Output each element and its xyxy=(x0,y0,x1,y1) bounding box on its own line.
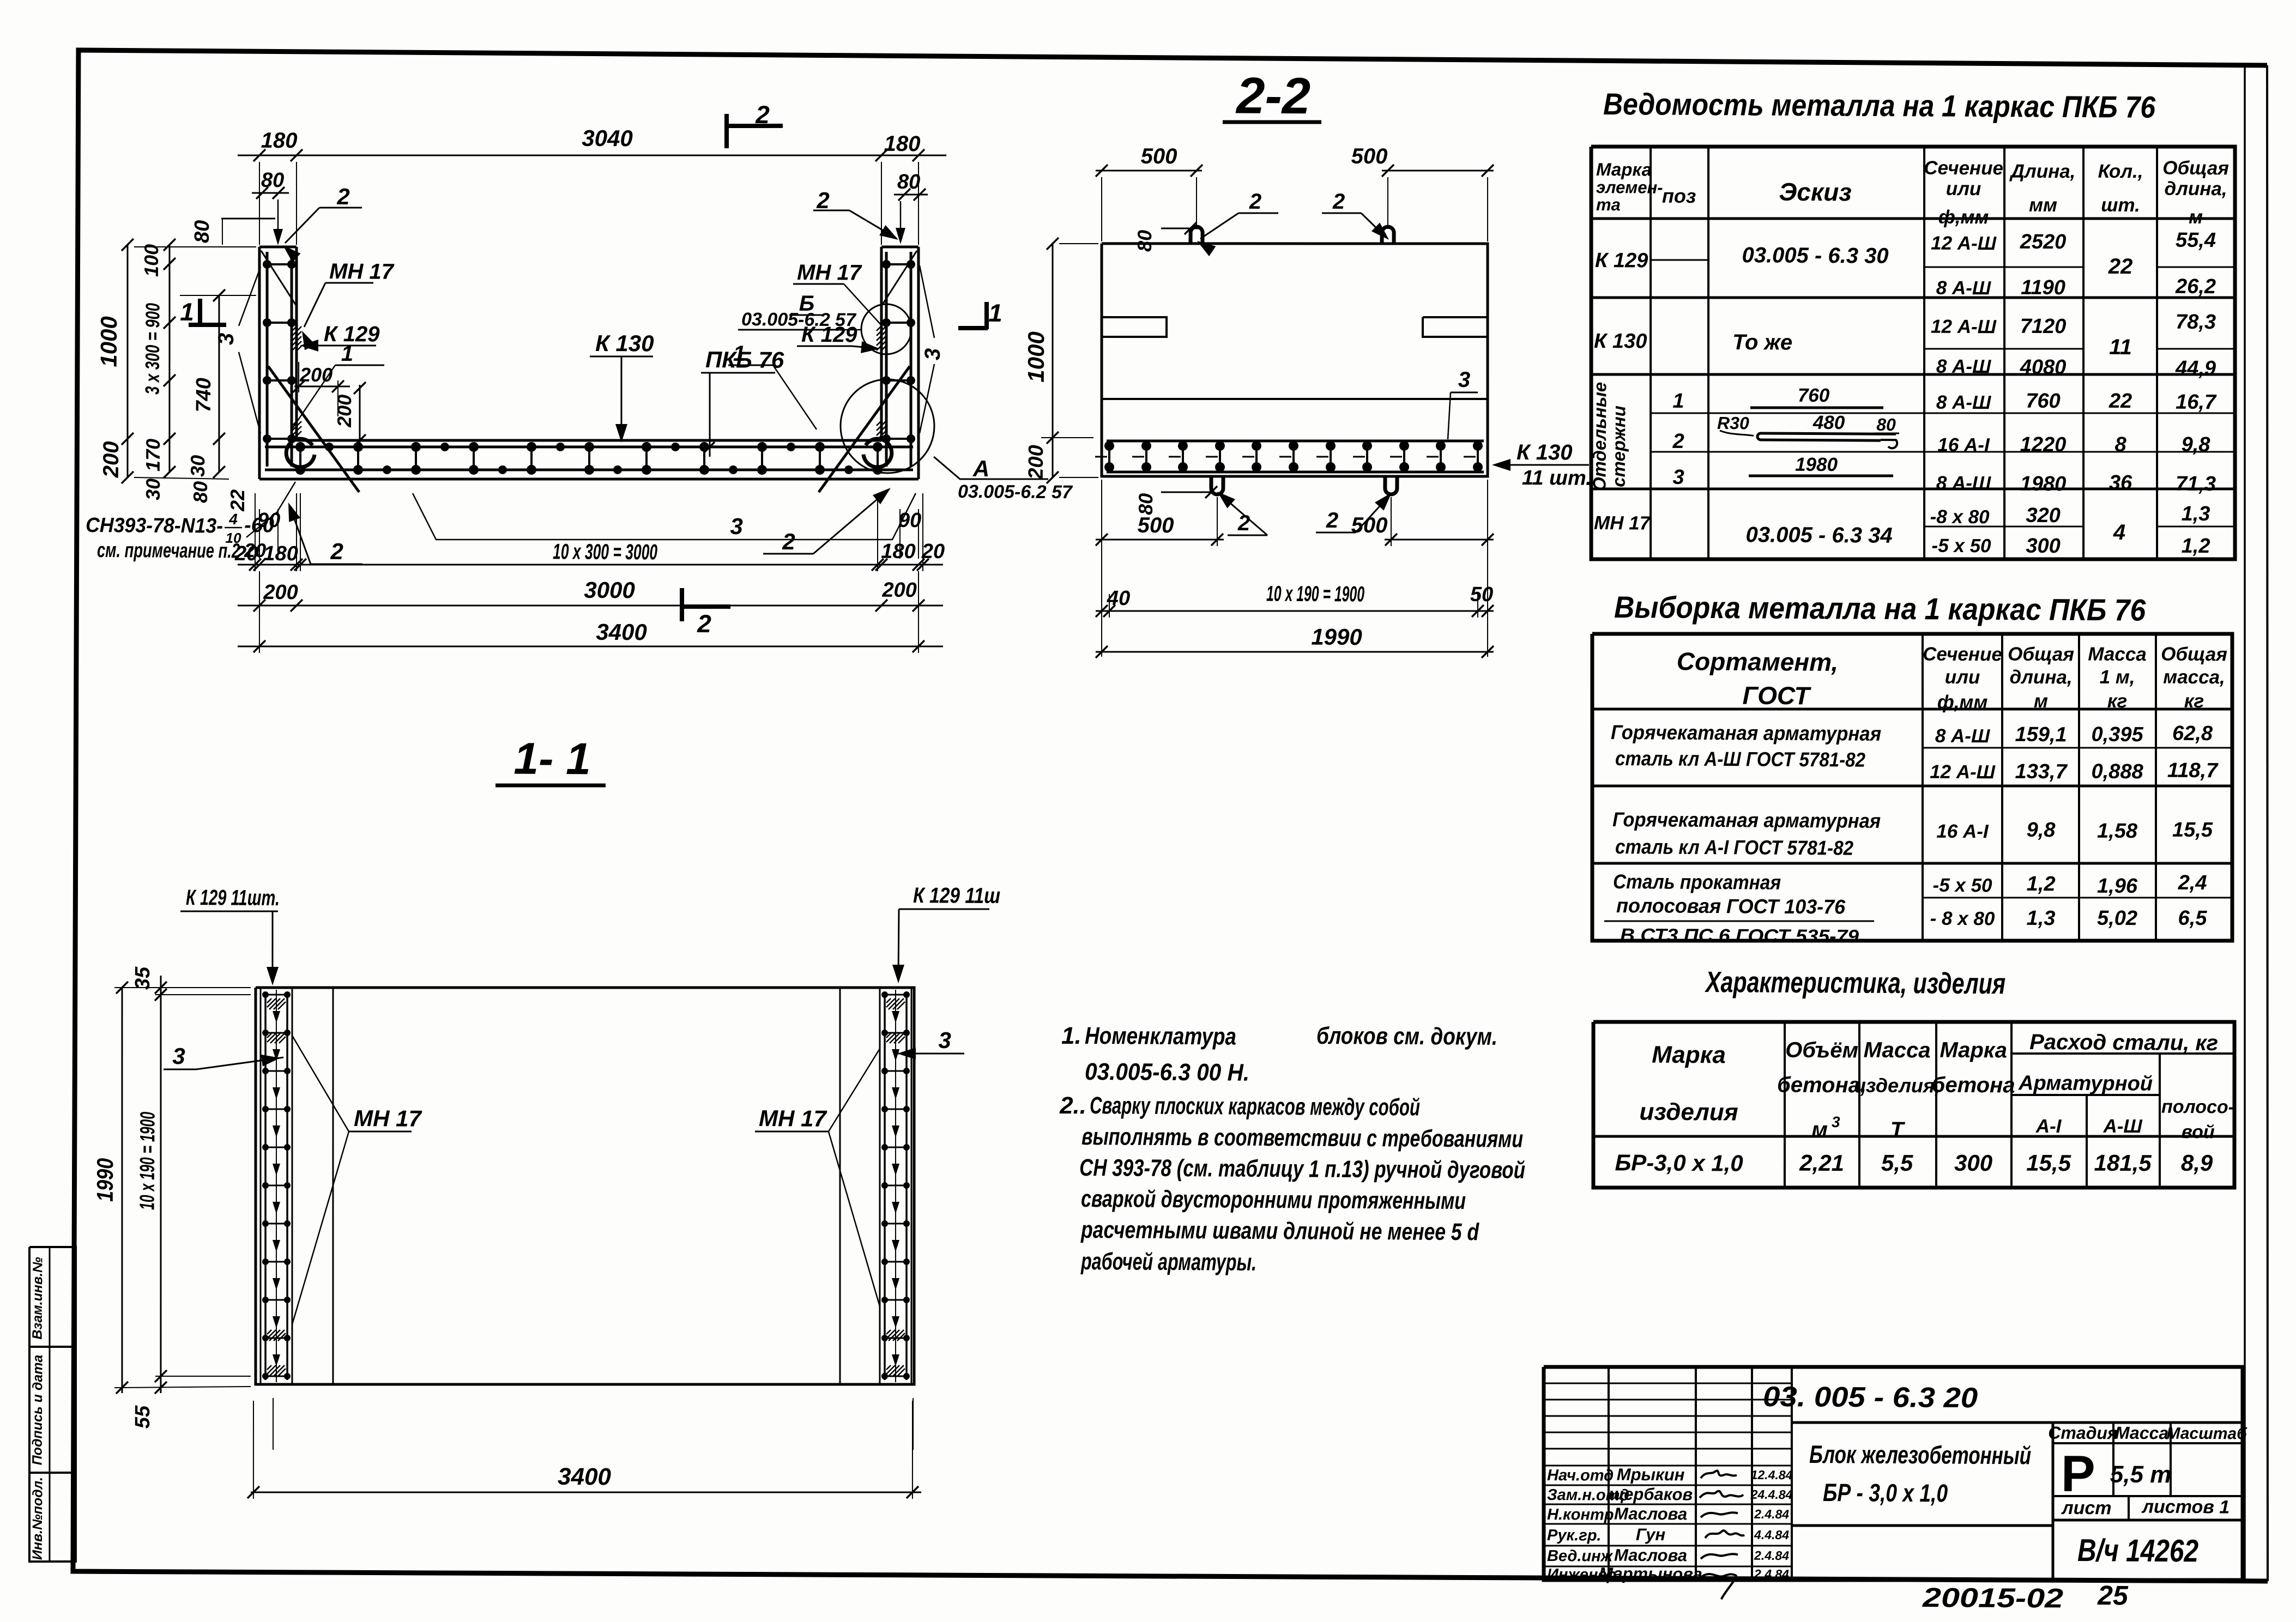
svg-text:Общая: Общая xyxy=(2162,158,2229,179)
svg-text:500: 500 xyxy=(1141,144,1177,168)
svg-text:2,4: 2,4 xyxy=(2178,871,2207,894)
section 2-2: MN17 plate right xyxy=(1423,317,1488,337)
svg-text:Н.контр: Н.контр xyxy=(1547,1506,1614,1524)
svg-text:181,5: 181,5 xyxy=(2094,1150,2152,1176)
svg-text:Стадия: Стадия xyxy=(2048,1423,2118,1443)
svg-text:3040: 3040 xyxy=(582,125,633,152)
svg-text:К 129: К 129 xyxy=(801,323,857,347)
svg-text:МН 17: МН 17 xyxy=(759,1105,827,1131)
svg-text:2: 2 xyxy=(782,529,795,554)
section 2-2: dimension 80 top xyxy=(1161,227,1202,229)
svg-text:МН 17: МН 17 xyxy=(329,259,395,284)
svg-text:16 А-I: 16 А-I xyxy=(1937,434,1990,456)
svg-text:МН 17: МН 17 xyxy=(354,1105,422,1131)
svg-text:2520: 2520 xyxy=(2020,231,2067,253)
svg-text:180: 180 xyxy=(263,542,298,565)
svg-text:480: 480 xyxy=(1812,412,1845,433)
svg-text:Общая: Общая xyxy=(2161,644,2227,665)
svg-text:К 130: К 130 xyxy=(1594,330,1647,353)
main view: right wall MN17 plate hatch xyxy=(877,326,886,351)
svg-text:Расход стали, кг: Расход стали, кг xyxy=(2029,1030,2218,1055)
svg-text:Масса: Масса xyxy=(1864,1038,1931,1063)
section 2-2: dimension 500 bottom right xyxy=(1385,539,1494,540)
svg-text:К 129: К 129 xyxy=(1595,249,1648,273)
svg-text:1 м,: 1 м, xyxy=(2100,667,2135,688)
svg-text:200: 200 xyxy=(881,579,917,602)
section flag 2 top xyxy=(724,114,729,148)
svg-text:133,7: 133,7 xyxy=(2015,760,2068,784)
view 1-1: right cage centerline xyxy=(893,990,898,1382)
svg-text:03.005-6.2 57: 03.005-6.2 57 xyxy=(958,481,1073,503)
svg-text:та: та xyxy=(1596,195,1621,214)
svg-text:71,3: 71,3 xyxy=(2176,473,2216,495)
section 2-2: dimension 500 top left xyxy=(1096,170,1202,171)
svg-text:200: 200 xyxy=(99,441,123,478)
svg-text:3: 3 xyxy=(938,1027,951,1053)
svg-text:Сварку плоских каркасов меж: Сварку плоских каркасов между собой xyxy=(1090,1092,1420,1121)
dimension column 100 / 3x300=900 xyxy=(168,245,171,472)
table 1: K130 sub-row line xyxy=(1924,348,2083,349)
svg-text:Нач.отд: Нач.отд xyxy=(1547,1467,1614,1485)
svg-text:полосо-: полосо- xyxy=(2161,1097,2234,1118)
svg-text:12.4.84: 12.4.84 xyxy=(1751,1468,1793,1482)
svg-text:8,9: 8,9 xyxy=(2181,1150,2213,1176)
svg-text:22: 22 xyxy=(2108,390,2132,413)
leader from SN393 note to corner xyxy=(246,512,277,538)
main view: left wall outline xyxy=(258,247,261,479)
table 3: outer border xyxy=(1592,1018,2235,1191)
svg-text:2: 2 xyxy=(1332,190,1345,214)
table 1: K129 sub-row lines xyxy=(1651,259,1708,260)
svg-text:сталь кл А-I ГОСТ 5781-82: сталь кл А-I ГОСТ 5781-82 xyxy=(1615,836,1854,860)
section 2-2: dimension row 40/10x190=1900/50 xyxy=(1096,609,1494,613)
svg-text:3: 3 xyxy=(1832,1113,1840,1130)
table 1: Otdelnye row lines xyxy=(1651,410,2235,416)
svg-text:8 А-Ш: 8 А-Ш xyxy=(1936,356,1991,378)
svg-text:Общая: Общая xyxy=(2008,644,2074,665)
section 2-2: lifting loop top right xyxy=(1382,227,1394,244)
title block: stage header row line xyxy=(2053,1442,2243,1444)
svg-text:78,3: 78,3 xyxy=(2176,311,2216,334)
svg-text:180: 180 xyxy=(884,132,921,156)
view 1-1: right cage rungs and dots xyxy=(885,994,907,996)
svg-text:4: 4 xyxy=(2113,521,2126,544)
svg-text:- 8 x 80: - 8 x 80 xyxy=(1930,908,1995,930)
main view: diagonal bar pos.1 right xyxy=(819,366,910,493)
svg-text:180: 180 xyxy=(881,540,916,563)
svg-text:2: 2 xyxy=(755,100,770,129)
svg-text:1,58: 1,58 xyxy=(2097,820,2138,843)
svg-text:длина,: длина, xyxy=(2164,178,2227,200)
svg-text:1: 1 xyxy=(180,298,194,326)
svg-text:80: 80 xyxy=(261,169,285,192)
dimension row 180/3040/180 xyxy=(238,151,946,159)
svg-text:1: 1 xyxy=(733,342,746,366)
view 1-1: right cage strip outline xyxy=(878,988,914,1385)
svg-text:То же: То же xyxy=(1732,330,1792,355)
view 1-1: inner wall face line left xyxy=(331,988,335,1384)
table 3: header split line Armaturnoy xyxy=(2011,1094,2160,1096)
svg-text:5,02: 5,02 xyxy=(2097,907,2137,930)
svg-text:4080: 4080 xyxy=(2020,356,2067,379)
table 1: row line K130/Otdelnye xyxy=(1591,371,2235,378)
svg-text:1: 1 xyxy=(988,299,1002,327)
svg-text:Вед.инж: Вед.инж xyxy=(1547,1547,1614,1565)
svg-text:Отдельные: Отдельные xyxy=(1589,382,1610,492)
view 1-1: block outline xyxy=(253,984,916,1388)
svg-text:-5 x 50: -5 x 50 xyxy=(1933,875,1993,897)
svg-text:вой: вой xyxy=(2181,1122,2215,1142)
svg-text:1990: 1990 xyxy=(92,1158,118,1202)
svg-text:Рук.гр.: Рук.гр. xyxy=(1547,1527,1602,1545)
svg-text:80: 80 xyxy=(897,171,921,193)
svg-text:щербаков: щербаков xyxy=(1609,1485,1693,1504)
svg-text:или: или xyxy=(1946,178,1981,199)
main view: detail circle A at right corner xyxy=(840,379,934,473)
svg-text:80: 80 xyxy=(189,481,212,503)
svg-text:55: 55 xyxy=(131,1405,154,1429)
svg-text:Гун: Гун xyxy=(1636,1525,1666,1544)
svg-text:1990: 1990 xyxy=(1311,624,1362,650)
svg-text:8: 8 xyxy=(2114,433,2126,456)
svg-text:-8 x 80: -8 x 80 xyxy=(1930,506,1990,528)
section 2-2: lifting loop bottom left xyxy=(1211,476,1223,494)
svg-text:длина,: длина, xyxy=(2009,667,2072,688)
svg-text:0,395: 0,395 xyxy=(2091,723,2143,747)
svg-text:изделия,: изделия, xyxy=(1854,1074,1940,1097)
view 1-1: right MN17 plate hatches xyxy=(886,998,905,1009)
table 3: header split line Raskhod xyxy=(2011,1052,2234,1055)
view 1-1: left cage centerline xyxy=(274,990,279,1382)
svg-text:ГОСТ: ГОСТ xyxy=(1742,681,1811,710)
svg-text:ф,мм: ф,мм xyxy=(1937,692,1988,713)
title block: outer border xyxy=(1543,1363,2244,1584)
svg-text:8 А-Ш: 8 А-Ш xyxy=(1936,473,1991,494)
section 2-2: slab cage rungs with dots xyxy=(1108,441,1111,472)
svg-text:Сортамент,: Сортамент, xyxy=(1677,647,1839,676)
svg-text:-5 x 50: -5 x 50 xyxy=(1932,535,1992,557)
svg-text:4.4.84: 4.4.84 xyxy=(1754,1528,1789,1542)
view 1-1: left cage strip outline xyxy=(258,988,294,1385)
svg-text:2: 2 xyxy=(1326,509,1339,532)
svg-text:200: 200 xyxy=(1025,445,1048,480)
svg-text:8 А-Ш: 8 А-Ш xyxy=(1935,725,1990,747)
svg-text:Мрыкин: Мрыкин xyxy=(1617,1465,1685,1485)
dimension 80 vertical at left wall top xyxy=(221,218,275,219)
frame inner right line xyxy=(2236,66,2253,1581)
left margin stamp boxes xyxy=(28,1247,78,1562)
table 1: header bottom line xyxy=(1591,215,2235,222)
view 1-1: strip centerline stubs below block xyxy=(273,1398,273,1450)
svg-text:БР-3,0 x 1,0: БР-3,0 x 1,0 xyxy=(1615,1149,1743,1176)
main view: left wall cage top diagonal brace xyxy=(261,251,296,305)
svg-text:80: 80 xyxy=(1134,493,1157,515)
section 2-2: lifting loop bottom right xyxy=(1385,476,1397,494)
svg-text:16 А-I: 16 А-I xyxy=(1936,821,1989,843)
svg-text:ф,мм: ф,мм xyxy=(1938,207,1989,228)
svg-text:2.4.84: 2.4.84 xyxy=(1754,1567,1789,1581)
svg-text:бетона: бетона xyxy=(1932,1073,2015,1098)
svg-text:26,2: 26,2 xyxy=(2175,275,2216,298)
svg-text:118,7: 118,7 xyxy=(2167,759,2219,783)
main view: extra longitudinal bar dots on slab cage xyxy=(325,443,334,451)
svg-text:2: 2 xyxy=(336,184,350,209)
svg-text:1220: 1220 xyxy=(2020,433,2067,456)
title block: signature row lines xyxy=(1544,1484,1792,1486)
title block: stage columns xyxy=(2113,1423,2114,1496)
dimension 90 left xyxy=(259,509,259,559)
dimension 80 right top xyxy=(894,193,928,196)
svg-text:12 А-Ш: 12 А-Ш xyxy=(1931,233,1997,255)
svg-text:К 130: К 130 xyxy=(1516,440,1573,465)
svg-text:Масса: Масса xyxy=(2088,644,2147,665)
table 1: outer border xyxy=(1589,143,2238,563)
svg-text:30: 30 xyxy=(142,479,164,500)
section 2-2: dimension 500 top right xyxy=(1382,170,1494,171)
svg-text:стержни: стержни xyxy=(1609,405,1629,487)
table 1: column lines xyxy=(1648,147,1653,559)
svg-text:5,5: 5,5 xyxy=(1881,1150,1913,1176)
section flag 1 right xyxy=(984,302,989,329)
svg-text:12 А-Ш: 12 А-Ш xyxy=(1930,761,1996,783)
svg-text:мм: мм xyxy=(2029,195,2057,216)
svg-text:1,2: 1,2 xyxy=(2182,535,2210,558)
svg-text:Эскиз: Эскиз xyxy=(1779,178,1852,207)
table 2: header bottom line xyxy=(1592,705,2232,713)
svg-text:м: м xyxy=(2034,691,2048,712)
svg-text:А-I: А-I xyxy=(2035,1116,2062,1137)
svg-text:35: 35 xyxy=(131,966,154,990)
svg-text:11 шт.: 11 шт. xyxy=(1522,467,1592,490)
svg-text:200: 200 xyxy=(263,581,298,604)
svg-text:2.4.84: 2.4.84 xyxy=(1754,1507,1789,1521)
svg-text:А-Ш: А-Ш xyxy=(2102,1116,2142,1137)
svg-text:760: 760 xyxy=(2026,390,2061,413)
svg-text:80: 80 xyxy=(1876,415,1896,434)
svg-text:8 А-Ш: 8 А-Ш xyxy=(1936,277,1991,299)
svg-text:180: 180 xyxy=(261,129,298,153)
dimension 740 xyxy=(218,295,220,472)
svg-text:МН 17: МН 17 xyxy=(1594,512,1651,534)
svg-text:300: 300 xyxy=(1954,1150,1992,1176)
main view: left wall MN17 plate hatch xyxy=(292,326,301,351)
svg-text:15,5: 15,5 xyxy=(2026,1150,2071,1176)
dimension 90 right xyxy=(899,509,900,559)
svg-text:20015-02: 20015-02 xyxy=(1922,1582,2064,1614)
svg-text:03.005-6.3 00 Н.: 03.005-6.3 00 Н. xyxy=(1085,1058,1249,1086)
svg-text:170: 170 xyxy=(142,439,164,471)
svg-text:м: м xyxy=(1811,1118,1828,1142)
main view: detail circle B on right wall xyxy=(861,304,912,355)
dimension row 20/180/10x300=3000/180/20 xyxy=(238,560,943,568)
svg-text:Выборка металла на 1 кар: Выборка металла на 1 каркас ПКБ 76 xyxy=(1614,590,2146,627)
svg-text:2: 2 xyxy=(330,538,343,564)
svg-text:Объём: Объём xyxy=(1785,1038,1858,1063)
svg-text:Номенклатура: Номенклатура xyxy=(1085,1022,1236,1050)
title block: doc number zone line xyxy=(1792,1420,2243,1425)
table 2: row line block2/block3 xyxy=(1592,860,2232,867)
svg-text:Кол.,: Кол., xyxy=(2098,161,2143,182)
svg-text:Арматурной: Арматурной xyxy=(2018,1072,2153,1095)
svg-text:бетона,: бетона, xyxy=(1777,1073,1866,1098)
svg-text:20: 20 xyxy=(244,539,266,561)
table 2: row line block1/block2 xyxy=(1592,782,2232,790)
dimension row 200/3000/200 xyxy=(238,601,943,609)
svg-text:1000: 1000 xyxy=(1023,331,1049,383)
svg-text:Т: Т xyxy=(1890,1118,1906,1142)
section 2-2: MN17 plate left xyxy=(1102,317,1167,337)
svg-text:7120: 7120 xyxy=(2020,315,2067,338)
section 2-2: dimension 500 bottom left xyxy=(1096,539,1224,541)
svg-text:Р: Р xyxy=(2061,1445,2095,1502)
svg-text:03.005 - 6.3 34: 03.005 - 6.3 34 xyxy=(1745,523,1892,548)
svg-text:изделия: изделия xyxy=(1639,1098,1738,1125)
svg-text:30: 30 xyxy=(186,455,209,477)
svg-text:16,7: 16,7 xyxy=(2176,391,2217,414)
svg-text:Масштаб: Масштаб xyxy=(2166,1425,2247,1443)
svg-text:Марка: Марка xyxy=(1652,1042,1726,1069)
svg-text:50: 50 xyxy=(1470,583,1494,606)
main view: bent bar loop at left corner xyxy=(286,439,315,467)
svg-text:55,4: 55,4 xyxy=(2176,229,2216,252)
svg-text:2: 2 xyxy=(1672,430,1684,453)
table 3: header bottom line xyxy=(1593,1133,2234,1140)
svg-text:10 x 190 = 1900: 10 x 190 = 1900 xyxy=(136,1112,159,1210)
svg-text:1980: 1980 xyxy=(1795,454,1838,475)
svg-text:К 130: К 130 xyxy=(595,330,654,356)
svg-text:159,1: 159,1 xyxy=(2015,723,2067,747)
svg-text:2-2: 2-2 xyxy=(1235,67,1310,125)
dimension row 3400 xyxy=(238,642,943,650)
svg-text:25: 25 xyxy=(2097,1580,2129,1611)
section 2-2: dimension 1000 left xyxy=(1052,244,1054,477)
svg-text:500: 500 xyxy=(1351,513,1388,537)
main view: left wall rebar cage K129 xyxy=(266,252,269,467)
table 2: column lines xyxy=(1921,634,1925,941)
svg-text:10 x 300 = 3000: 10 x 300 = 3000 xyxy=(553,540,657,564)
svg-text:R30: R30 xyxy=(1717,413,1749,433)
svg-text:Марка: Марка xyxy=(1596,159,1652,180)
view 1-1: dimension 1990 xyxy=(120,988,125,1393)
title block: list row line xyxy=(2053,1495,2243,1497)
svg-text:1: 1 xyxy=(1672,390,1684,413)
main view: slab cage K130 bars xyxy=(265,443,913,451)
svg-text:2: 2 xyxy=(697,609,711,638)
svg-text:20: 20 xyxy=(921,540,945,563)
svg-text:03. 005 - 6.3 20: 03. 005 - 6.3 20 xyxy=(1763,1381,1978,1414)
svg-text:элемен-: элемен- xyxy=(1596,178,1663,197)
svg-text:9,8: 9,8 xyxy=(2182,433,2211,456)
main view: right wall MN17 lower plate hatch xyxy=(877,421,886,437)
svg-text:3: 3 xyxy=(921,348,945,361)
svg-text:3: 3 xyxy=(172,1043,185,1069)
view 1-1: right cage bars xyxy=(883,992,887,1380)
table 1: MN17 sub-row line xyxy=(1924,525,2083,527)
main view: bent bar loop at right corner xyxy=(863,439,892,467)
svg-text:1980: 1980 xyxy=(2020,473,2067,495)
section flag 2 bottom xyxy=(680,588,685,621)
svg-text:1190: 1190 xyxy=(2021,276,2065,299)
frame right edge xyxy=(2258,65,2276,1581)
svg-text:1.: 1. xyxy=(1061,1022,1081,1049)
svg-text:кг: кг xyxy=(2107,691,2128,712)
svg-text:СН 393-78 (см. таблицу 1 п.1: СН 393-78 (см. таблицу 1 п.13) ручной ду… xyxy=(1079,1154,1525,1184)
svg-text:Масса: Масса xyxy=(2115,1423,2168,1443)
svg-text:22: 22 xyxy=(226,489,249,512)
svg-text:Мартынова: Мартынова xyxy=(1599,1564,1702,1583)
svg-text:320: 320 xyxy=(2026,504,2061,527)
svg-text:МН 17: МН 17 xyxy=(797,261,862,285)
svg-text:поз: поз xyxy=(1662,185,1696,207)
svg-text:3: 3 xyxy=(214,333,238,346)
svg-text:шт.: шт. xyxy=(2101,195,2140,216)
svg-text:11: 11 xyxy=(2109,335,2132,359)
table 2: block1 sub-row line xyxy=(1923,746,2232,750)
view 1-1: left cage rungs and dots xyxy=(265,994,287,995)
svg-text:6,5: 6,5 xyxy=(2178,907,2208,930)
main view: slab cage rungs with weld dots xyxy=(299,447,301,470)
svg-text:15,5: 15,5 xyxy=(2172,819,2213,842)
svg-text:0,888: 0,888 xyxy=(2091,760,2143,784)
svg-text:Маслова: Маслова xyxy=(1614,1504,1687,1524)
main view: slab outline xyxy=(297,437,881,444)
svg-text:К 129 11шт.: К 129 11шт. xyxy=(186,886,280,910)
svg-text:3: 3 xyxy=(1458,368,1471,392)
svg-text:3: 3 xyxy=(730,513,743,539)
svg-text:03.005 - 6.3 30: 03.005 - 6.3 30 xyxy=(1742,243,1888,268)
section 2-2: block outline xyxy=(1101,241,1489,479)
svg-text:К 129 11ш: К 129 11ш xyxy=(913,883,1000,908)
svg-text:80: 80 xyxy=(1133,230,1156,252)
svg-text:2: 2 xyxy=(816,187,830,213)
section 2-2: dimension 80 bottom xyxy=(1161,492,1211,492)
svg-text:760: 760 xyxy=(1798,385,1830,406)
svg-text:3 x 300 = 900: 3 x 300 = 900 xyxy=(141,303,164,395)
svg-text:9,8: 9,8 xyxy=(2027,819,2056,842)
main view: diagonal bar pos.1 left xyxy=(268,366,360,492)
svg-text:36: 36 xyxy=(2109,471,2132,494)
svg-text:см. примечание п.2: см. примечание п.2 xyxy=(97,539,240,563)
main view: right wall cage top diagonal brace xyxy=(882,251,917,306)
dimension 80 left top xyxy=(252,192,289,194)
svg-text:Длина,: Длина, xyxy=(2009,161,2076,183)
svg-text:Блок железобетонный: Блок железобетонный xyxy=(1809,1440,2031,1469)
svg-text:500: 500 xyxy=(1138,513,1174,537)
svg-text:Взам.инв.№: Взам.инв.№ xyxy=(30,1257,46,1340)
svg-text:500: 500 xyxy=(1351,144,1388,168)
svg-text:1,96: 1,96 xyxy=(2097,875,2138,898)
view 1-1: dimension 3400 xyxy=(251,1488,921,1496)
svg-text:кг: кг xyxy=(2184,691,2204,712)
table 3: column lines xyxy=(1784,1022,1785,1188)
svg-text:22: 22 xyxy=(2108,255,2133,279)
svg-text:СН393-78-N13-: СН393-78-N13- xyxy=(86,514,223,537)
svg-text:сталь кл А-Ш ГОСТ 5781-82: сталь кл А-Ш ГОСТ 5781-82 xyxy=(1615,747,1866,771)
svg-text:БР - 3,0 x 1,0: БР - 3,0 x 1,0 xyxy=(1823,1478,1948,1507)
svg-text:Горячекатаная арматурная: Горячекатаная арматурная xyxy=(1612,808,1881,832)
svg-text:1: 1 xyxy=(341,342,354,366)
svg-text:расчетными швами длиной не: расчетными швами длиной не менее 5 d xyxy=(1080,1216,1479,1245)
title block: vertical divider name/stamp xyxy=(2052,1423,2053,1580)
svg-text:300: 300 xyxy=(2026,535,2061,558)
table 2: block3 sub-row line xyxy=(1923,896,2232,900)
table 1: row line Otdelnye/MN17 xyxy=(1591,485,2235,493)
main view: right wall rebar cage K129 xyxy=(885,252,888,467)
title block: signature grid verticals xyxy=(1608,1367,1610,1580)
svg-text:В/ч 14262: В/ч 14262 xyxy=(2077,1533,2198,1569)
svg-text:В СТ3 ПС 6 ГОСТ 535-79: В СТ3 ПС 6 ГОСТ 535-79 xyxy=(1620,925,1859,947)
svg-text:масса,: масса, xyxy=(2163,667,2225,688)
